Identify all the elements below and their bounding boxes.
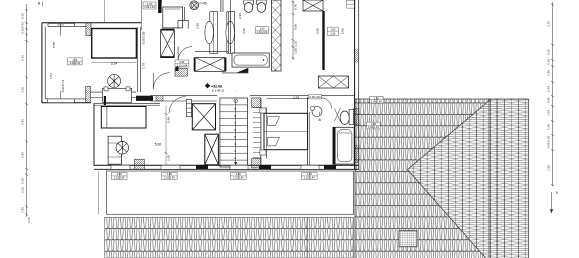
X-hatch wall block above bath2 [318,76,348,88]
svg-text:1.10,2.64: 1.10,2.64 [233,177,244,180]
roof right: right face (columns pattern) [408,99,529,258]
roof left edge line [354,99,356,258]
shower tray X [194,58,227,72]
roof outline: top edge [355,98,529,100]
corridor bottom wall / bedroom top walls [150,96,355,101]
black wall segment center [136,96,153,101]
svg-text:1.51: 1.51 [49,73,53,79]
top right label box [346,1,354,9]
svg-text:E ± 86.11: E ± 86.11 [212,89,225,93]
4.25 label box bath [309,94,322,99]
svg-text:6.25: 6.25 [21,187,25,193]
right dimension line [550,2,554,214]
svg-text:1.00,1.64: 1.00,1.64 [371,99,382,103]
svg-text:1.79: 1.79 [142,63,146,69]
svg-text:5.30: 5.30 [155,143,162,147]
svg-text:1.88,2.64: 1.88,2.64 [144,6,155,9]
svg-text:4.25: 4.25 [293,96,299,100]
X box top right [303,0,323,11]
X wall (wide, between wc and hall) [272,0,282,71]
left room top wall inner line [75,26,87,28]
bathtub bath2 [333,127,354,164]
left dimension line [25,4,28,217]
radiator [187,99,192,116]
bath2 dividing wall [308,97,310,165]
roof hip lower [408,170,486,258]
bath2 door arc + sink [310,98,331,117]
wall stub x221 [221,0,223,12]
5.30 dim [120,105,225,165]
svg-text:0.25: 0.25 [21,178,25,184]
terrace window label 2 [162,172,178,179]
svg-text:0.70: 0.70 [294,4,298,10]
svg-text:2.00: 2.00 [316,28,320,34]
dim line under wardrobe [92,62,137,64]
window label left room [68,58,83,65]
left room bottom wall [42,91,91,103]
black door wedge [237,68,249,73]
roof label box 2 [367,122,381,129]
svg-text:0.49: 0.49 [167,117,171,123]
bathtub [232,53,269,67]
B section marker [319,112,322,122]
level marker [205,83,237,93]
door leaf tall 1 [205,12,218,54]
svg-text:1.85: 1.85 [21,207,25,213]
wall left of WC [229,0,231,53]
X box 2 [205,134,219,165]
svg-text:2.00: 2.00 [341,28,345,34]
svg-text:2.86: 2.86 [21,119,25,125]
small room top center [163,7,183,28]
top left B marker [38,2,43,7]
svg-text:1.10,2.64: 1.10,2.64 [304,177,315,180]
svg-text:0.46: 0.46 [547,97,551,103]
X shaft center [161,29,175,58]
terrace window label 1 [111,172,127,179]
hall hatch block [175,68,187,76]
svg-text:5.55: 5.55 [52,42,56,48]
valley line in bottom band [306,217,308,258]
svg-text:0.96: 0.96 [294,24,298,30]
wardrobe top-left room [92,29,137,66]
roof hip upper [408,99,492,170]
fan symbol circle [190,1,207,10]
svg-text:6.15: 6.15 [27,217,31,223]
svg-text:1.55: 1.55 [294,48,298,54]
upper desk chair [103,75,132,103]
hall door arc [178,47,192,61]
hall top line under tub [222,72,248,74]
label box right of line [328,27,339,35]
svg-text:3.15: 3.15 [242,28,246,34]
svg-text:0.30: 0.30 [21,13,25,19]
dim line x293 [292,0,298,60]
svg-text:3.49,2.64: 3.49,2.64 [70,62,81,65]
svg-text:3.14: 3.14 [111,62,118,66]
stair right hatch piers [252,98,261,108]
svg-text:2.20: 2.20 [238,13,242,19]
black wall bar x158 [158,0,162,13]
top label box near x145 [143,2,156,9]
wall from pier to right (room divider) [91,92,136,97]
right exterior wall [353,0,359,170]
left room top wall outer [42,22,141,24]
roof vertical line A [488,99,490,258]
svg-text:2.80: 2.80 [21,152,25,158]
svg-text:0.85 0.25: 0.85 0.25 [547,135,551,148]
room step outline [178,7,188,29]
svg-text:2.45: 2.45 [196,23,200,29]
svg-text:1.10,2.64: 1.10,2.64 [164,177,175,180]
small black pier right of door [176,67,179,72]
thick vertical line x323 [322,11,324,70]
left room left wall [42,23,45,103]
svg-text:1.00,1.64: 1.00,1.64 [368,125,379,129]
svg-text:0.49: 0.49 [21,22,25,28]
svg-text:8: 8 [556,191,558,195]
door arc hall to stair area [169,97,186,114]
svg-text:2.42: 2.42 [21,55,25,61]
terrace slab [99,171,354,214]
svg-text:1.85: 1.85 [547,165,551,171]
sideboard bed2 [101,107,146,129]
roof label box 1 [370,96,384,103]
svg-text:1.90: 1.90 [547,124,551,130]
vertical wall between left room and center [138,27,146,92]
extension line x104 [104,0,106,23]
toilets top [244,0,254,12]
bedroom2 left wall [93,103,95,166]
svg-text:↓: ↓ [236,90,237,93]
extension line x161 [161,0,163,3]
chimney [399,231,417,247]
svg-text:3.70: 3.70 [547,21,551,27]
top wall hatch pier [86,23,91,36]
svg-text:1.00: 1.00 [330,28,335,31]
wc label box [256,27,269,34]
desk 2 with chair [108,136,129,164]
terrace window label 3 [231,172,247,179]
hall door label [175,60,189,67]
svg-text:1.00,2.64: 1.00,2.64 [257,31,268,34]
svg-text:1.00: 1.00 [260,28,265,31]
bedroom2 top wall [94,96,160,105]
toilet bath2 [334,108,353,124]
svg-text:0.25: 0.25 [547,49,551,55]
svg-text:2.15: 2.15 [294,41,298,47]
roof outline: right edge [528,99,530,258]
svg-text:2.35: 2.35 [167,155,171,161]
svg-text:0.93 0.73: 0.93 0.73 [61,79,65,92]
door leaf tall 2 [226,12,235,54]
svg-text:2.00: 2.00 [330,32,335,35]
svg-text:0.40: 0.40 [547,86,551,92]
svg-text:45: 45 [203,2,207,6]
stair right wall [253,98,266,168]
bottom wall hatch pier left room [86,87,91,103]
svg-text:3.20: 3.20 [21,87,25,93]
terrace window label 4 [302,172,318,179]
roof bottom band hatch [105,217,354,258]
svg-text:4.25 (10): 4.25 (10) [309,95,320,99]
bed 3 [260,108,308,155]
door arc into bedroom2 [153,73,170,90]
svg-text:1.00: 1.00 [547,110,551,116]
staircase [220,98,248,167]
svg-text:1.10,2.64: 1.10,2.64 [114,177,125,180]
X box 1 (void) [192,104,215,130]
svg-text:1.90: 1.90 [547,70,551,76]
roof right: left face (rows pattern) [355,99,491,258]
top extension line x141 [140,0,142,30]
roof vertical line B [496,99,498,258]
line under door leaves [195,50,228,52]
svg-text:0.30: 0.30 [547,59,551,65]
svg-text:0.25 0.55: 0.25 0.55 [142,31,146,44]
left room top window [48,23,75,35]
svg-text:0.90: 0.90 [179,61,184,64]
svg-text:0.36: 0.36 [21,28,25,34]
